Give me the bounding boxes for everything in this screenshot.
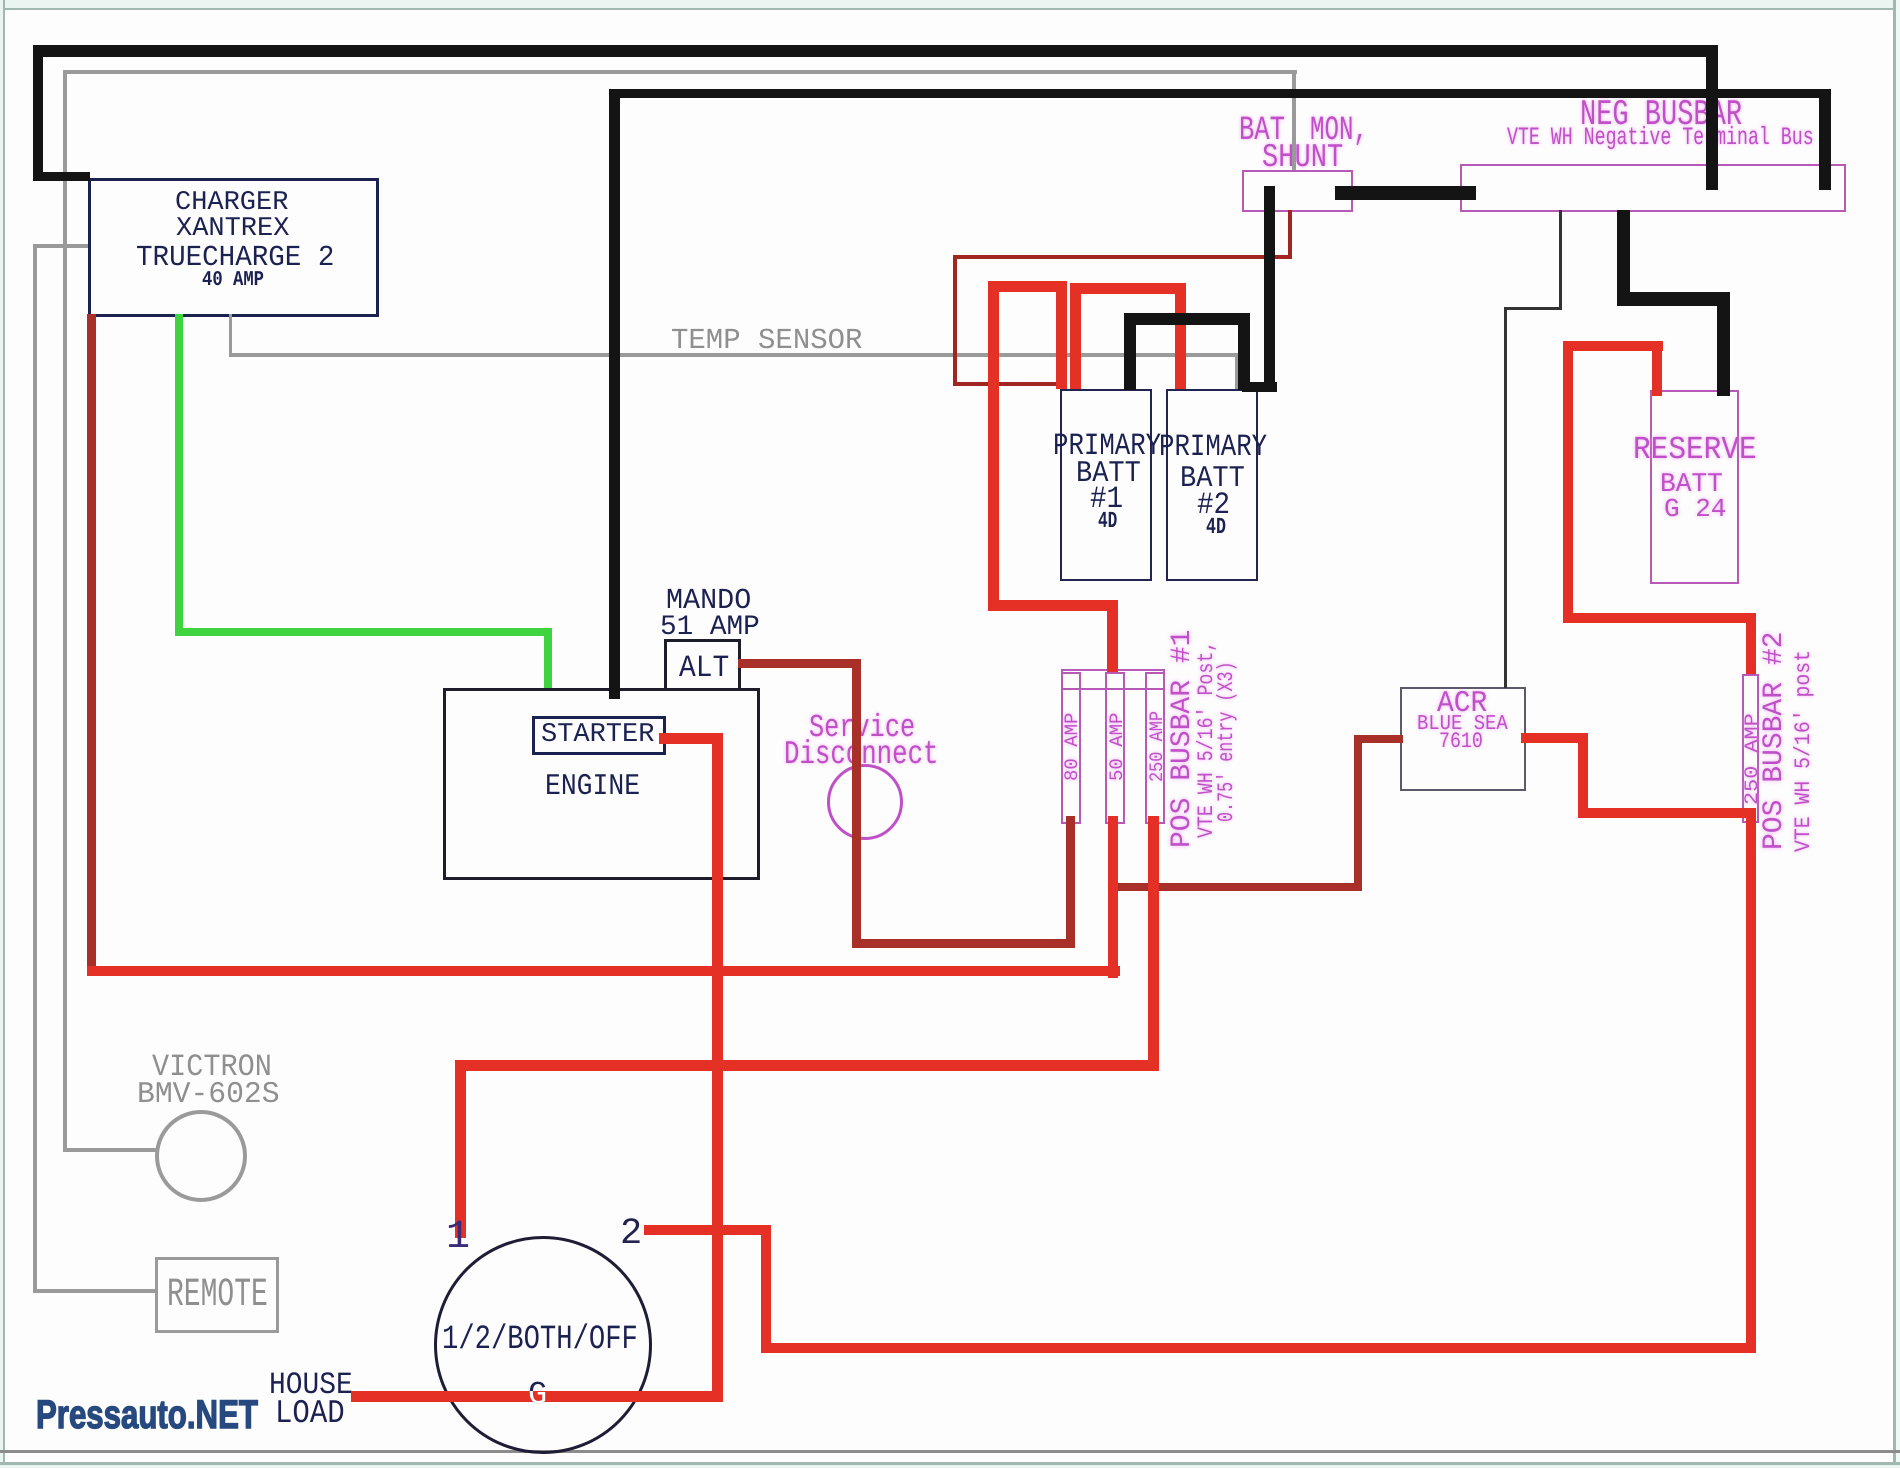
- pos busbar2 fuse 250A body: [1742, 674, 1759, 823]
- border top teal strip: [0, 0, 1900, 8]
- temp sensor wire drop to battery2: [1235, 353, 1238, 389]
- switch terminal 2 digit: [620, 1216, 642, 1253]
- gray wire A horizontal stub: [33, 244, 88, 248]
- fuse2 top stub: [1107, 600, 1118, 672]
- border right line: [1893, 0, 1896, 1468]
- charger positive wire horizontal: [87, 966, 1120, 976]
- reserve label RESERVE: [1633, 434, 1757, 466]
- shunt label BAT: [1239, 114, 1285, 148]
- ACR label BLUE SEA: [1417, 714, 1508, 735]
- remote box: [155, 1257, 279, 1333]
- pos busbar2 fuse top stub: [1746, 613, 1756, 674]
- temp sensor wire drop from charger: [229, 314, 232, 357]
- reserve battery box: [1650, 390, 1739, 584]
- engine box: [443, 688, 760, 880]
- engine label: [545, 772, 640, 802]
- pos busbar2 subtitle: [1793, 650, 1815, 852]
- battery2 label PRIMARY: [1159, 432, 1267, 463]
- reserve negative drop: [1717, 292, 1730, 396]
- switch label: [442, 1323, 638, 1357]
- gray wire victron link: [63, 1148, 158, 1152]
- border bottom gray line: [0, 1450, 1900, 1453]
- primary bus wire vertical: [988, 281, 999, 611]
- ACR box: [1400, 687, 1526, 791]
- gray wire A left vertical: [33, 244, 37, 1293]
- shunt busbar link bar: [1335, 186, 1476, 200]
- victron label: [152, 1052, 272, 1083]
- primary battery 1 box: [1060, 389, 1152, 581]
- switch terminal2 horizontal: [644, 1225, 771, 1235]
- house load label HOUSE: [269, 1370, 353, 1401]
- switch terminal G label: [528, 1379, 547, 1411]
- battery2 label BATT: [1180, 464, 1245, 494]
- reserve label G 24: [1664, 496, 1726, 522]
- neg busbar label: [1580, 97, 1742, 133]
- house load label LOAD: [275, 1397, 345, 1430]
- battery2 label 4D: [1206, 516, 1226, 539]
- pos busbar2 vertical: [1746, 808, 1756, 1353]
- charger label line2: [176, 216, 289, 243]
- victron label model: [137, 1080, 280, 1110]
- neg busbar subtitle: [1507, 125, 1814, 150]
- service disconnect label1: [809, 712, 915, 744]
- switch terminal1 vertical: [455, 1060, 466, 1238]
- fuse F3 250A body: [1145, 672, 1165, 824]
- black wire2 engine vertical: [609, 89, 620, 699]
- starter wire horizontal: [659, 733, 723, 744]
- fuse F3 label 250 AMP: [1148, 711, 1167, 782]
- primary battery 2 box: [1166, 389, 1258, 581]
- battery jumper right drop: [1175, 283, 1186, 389]
- service disconnect label2: [784, 738, 938, 771]
- charger label line4: [202, 270, 264, 291]
- ACR left wire vertical: [1354, 737, 1362, 891]
- black wire2 busbar drop: [1819, 89, 1831, 190]
- ACR label 7610: [1439, 731, 1483, 753]
- border bottom teal strip: [0, 1465, 1900, 1468]
- battery2 negative foot: [1242, 382, 1277, 392]
- house load G wire: [351, 1391, 723, 1402]
- negative busbar box: [1460, 164, 1846, 212]
- ACR ground wire jog: [1504, 307, 1562, 310]
- alternator ALT box: [664, 639, 741, 691]
- border right teal strip: [1896, 0, 1900, 1468]
- charger label line1: [175, 190, 288, 217]
- victron BMV-602S circle: [155, 1110, 247, 1202]
- battery switch circle 1/2/BOTH/OFF: [434, 1236, 652, 1454]
- ACR ground wire v2: [1504, 307, 1507, 688]
- ACR left wire horizontal: [1354, 735, 1403, 743]
- battery negative jumper right drop: [1238, 313, 1250, 390]
- ACR label: [1437, 689, 1487, 719]
- reserve label BATT: [1660, 472, 1723, 499]
- battery jumper left drop: [1070, 283, 1081, 389]
- shunt sense wire drop: [1288, 210, 1292, 258]
- black wire1 charger stub: [33, 172, 90, 181]
- starter box: [532, 716, 666, 755]
- charger positive wire vertical: [87, 314, 96, 976]
- reserve battery positive drop: [1652, 341, 1662, 396]
- border left teal strip: [0, 0, 3, 1468]
- shunt label MON.: [1310, 114, 1368, 148]
- pos busbar1 label: [1169, 630, 1197, 848]
- fuse F2 label 50 AMP: [1108, 713, 1127, 781]
- pressauto watermark: [36, 1395, 258, 1435]
- reserve bottom horizontal: [1563, 613, 1756, 623]
- service to fuse1 wire horizontal: [852, 939, 1075, 948]
- black wire1 top horizontal: [33, 45, 1718, 57]
- battery1 label 4D: [1098, 510, 1117, 533]
- gray wire left vertical: [63, 70, 67, 1152]
- alternator label 51 AMP: [660, 614, 760, 642]
- temp sensor label: [671, 326, 862, 355]
- battery1 label BATT: [1076, 459, 1141, 489]
- battery negative jumper left drop: [1124, 313, 1136, 390]
- black wire1 left vertical: [33, 45, 43, 181]
- border top line: [0, 8, 1900, 10]
- switch terminal 1 digit: [446, 1218, 470, 1258]
- battery jumper horizontal: [1070, 283, 1186, 294]
- charger label line3: [136, 243, 334, 272]
- gray wire top horizontal: [63, 70, 1297, 74]
- starter wire vertical: [712, 733, 723, 1399]
- fuse F1 80A body: [1061, 672, 1081, 824]
- switch terminal2 vertical: [761, 1225, 771, 1353]
- bus feed horizontal: [988, 600, 1118, 611]
- service disconnect circle: [827, 764, 903, 840]
- battery negative jumper horizontal: [1124, 313, 1250, 325]
- starter label: [541, 722, 654, 749]
- remote label: [167, 1276, 268, 1316]
- shunt sense wire horizontal: [953, 255, 1292, 259]
- fuse2-ACR wire horizontal: [1118, 883, 1362, 891]
- gray wire remote link: [33, 1289, 155, 1293]
- battery2 label #2: [1197, 490, 1230, 521]
- gray wire shunt drop: [1292, 70, 1296, 170]
- battery1 label #1: [1090, 484, 1123, 515]
- ACR right wire horizontal: [1521, 733, 1588, 743]
- reserve left vertical: [1563, 341, 1573, 623]
- battery monitor shunt box: [1242, 170, 1353, 212]
- green wire horizontal: [175, 628, 552, 636]
- pos busbar1 subtitle1: [1196, 641, 1218, 838]
- green wire engine drop: [544, 628, 552, 688]
- pos busbar1 fuse rail: [1061, 669, 1165, 690]
- alternator label MANDO: [666, 586, 751, 615]
- battery1 label PRIMARY: [1053, 431, 1161, 462]
- border left line: [3, 0, 5, 1468]
- black wire2 horizontal: [611, 89, 1831, 98]
- temp sensor wire horizontal: [229, 353, 1238, 357]
- primary bus wire top horizontal: [988, 281, 1067, 292]
- shunt sense wire battery vertical: [953, 255, 957, 386]
- fuse3 wire vertical: [1148, 816, 1159, 1066]
- shunt label SHUNT: [1262, 141, 1343, 174]
- charger box: [88, 178, 379, 317]
- green wire charger vertical: [175, 314, 183, 636]
- alternator output wire horizontal: [738, 659, 861, 668]
- busbar reserve wire vertical: [1617, 210, 1630, 306]
- fuse3 switch horizontal: [455, 1060, 1159, 1071]
- pos busbar2 label: [1761, 632, 1789, 850]
- reserve top horizontal: [1563, 341, 1663, 351]
- fuse2 lower wire vertical: [1108, 816, 1118, 978]
- service disconnect wire vertical: [852, 659, 861, 948]
- shunt battery wire vertical: [1264, 186, 1275, 384]
- black wire1 busbar drop: [1706, 45, 1718, 190]
- border bottom teal line: [0, 1462, 1900, 1465]
- fuse F2 50A body: [1105, 672, 1125, 824]
- ACR ground wire v1: [1559, 210, 1562, 310]
- ACR to fuse horizontal: [1578, 808, 1756, 818]
- shunt sense wire battery link: [953, 382, 1062, 386]
- pos busbar1 subtitle2: [1216, 661, 1238, 822]
- switch2 to posbus2 bottom horizontal: [761, 1343, 1756, 1353]
- fuse1 wire vertical: [1066, 816, 1075, 948]
- busbar reserve wire horizontal: [1617, 292, 1730, 306]
- ALT label: [679, 653, 729, 684]
- fuse F1 label 80 AMP: [1063, 713, 1082, 781]
- battery1 positive drop: [1056, 281, 1067, 389]
- fuse 250 AMP label pos2: [1743, 713, 1762, 805]
- ACR right wire vertical: [1578, 735, 1588, 818]
